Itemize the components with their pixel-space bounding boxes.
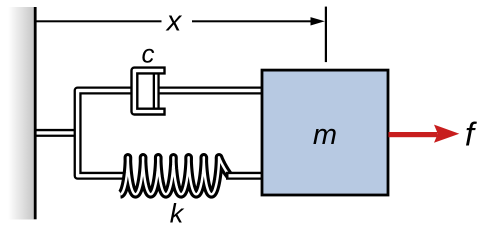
dimension line x left segment — [35, 20, 162, 22]
wire wall-to-bracket connector rod — [33, 129, 78, 137]
force arrow f (red) — [389, 125, 460, 143]
reference tick line — [325, 7, 327, 63]
spring k coil — [120, 157, 229, 194]
wire damper piston rod to mass — [156, 87, 263, 95]
wire bracket: vertical rod with arms to damper and spring — [78, 91, 135, 176]
svg-text:x: x — [165, 5, 183, 37]
wall edge line — [34, 7, 37, 219]
damper cylinder C1 body — [134, 71, 165, 112]
wire spring-to-mass rod — [226, 172, 263, 180]
dimension line x right segment — [192, 20, 314, 22]
svg-text:m: m — [313, 119, 337, 151]
svg-text:k: k — [170, 198, 185, 226]
wall (gradient bar) — [8, 7, 34, 220]
svg-text:c: c — [142, 38, 155, 68]
mass block m — [262, 70, 388, 195]
dimension arrowhead — [311, 17, 325, 25]
damper piston plate — [153, 72, 160, 111]
svg-text:f: f — [465, 116, 478, 153]
